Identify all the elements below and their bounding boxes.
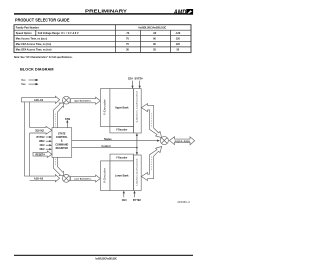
svg-text:BYTE#: BYTE# xyxy=(133,199,142,202)
bus: Lower Bank Address fat arrow xyxy=(70,175,100,182)
svg-text:Latches and Control: Latches and Control xyxy=(136,158,139,186)
bus: DQ15-DQ0 fat arrow into command register xyxy=(30,126,52,134)
svg-text:PRELIMINARY: PRELIMINARY xyxy=(85,8,127,13)
svg-text:Am29DL162C/Am29DL163C: Am29DL162C/Am29DL163C xyxy=(138,26,166,29)
bus: bent fat path state control to mux M2 xyxy=(54,157,64,175)
input CE# to lower bank xyxy=(122,191,127,202)
bus: A18-A0 upper horizontal fat arrow into mux M1 xyxy=(22,96,60,103)
bus: bent fat path mux M1 to state control (bank select) xyxy=(54,103,64,128)
block: lower bank latches and control strip xyxy=(134,155,142,191)
block: upper bank X-decoder xyxy=(101,89,110,127)
svg-text:Am29DL162C/Am29DL163C: Am29DL162C/Am29DL163C xyxy=(95,257,117,260)
input BYTE# to lower bank xyxy=(133,191,142,202)
svg-text:VSS: VSS xyxy=(21,83,26,86)
wire: Control from state control to both banks xyxy=(72,133,138,155)
svg-text:Y-Decoder: Y-Decoder xyxy=(116,158,127,160)
input BYTE# xyxy=(36,136,52,139)
table row 4 xyxy=(16,43,181,46)
power pin VSS xyxy=(21,83,38,86)
svg-text:CONTROL: CONTROL xyxy=(56,136,68,139)
power pin VCC xyxy=(21,79,38,82)
svg-text:120: 120 xyxy=(176,43,181,46)
block: upper bank cell matrix xyxy=(110,89,134,127)
wire: Status from state control to mux M3 xyxy=(72,138,160,142)
svg-text:REGISTER: REGISTER xyxy=(56,147,68,150)
svg-text:Latches and Control: Latches and Control xyxy=(136,90,139,122)
footer rule xyxy=(14,255,193,256)
svg-text:X-Decoder: X-Decoder xyxy=(104,168,107,183)
svg-text:OE#: OE# xyxy=(39,148,45,151)
input BYTE# to upper bank xyxy=(135,78,144,89)
input RESET# fat arrow xyxy=(33,151,52,157)
svg-text:DQ15–DQ0: DQ15–DQ0 xyxy=(35,131,44,133)
input WE# xyxy=(39,140,52,143)
mux M3 (DQ mux) xyxy=(160,136,168,144)
input OE# xyxy=(39,148,52,151)
svg-text:WE#: WE# xyxy=(39,140,45,143)
input CE# to upper bank xyxy=(128,78,134,89)
svg-text:Max Access Time, ns (tACC): Max Access Time, ns (tACC) xyxy=(16,37,48,40)
svg-text:Lower Bank: Lower Bank xyxy=(115,174,129,177)
bus: DQ15-DQ0 bidirectional fat arrow xyxy=(170,137,195,145)
svg-text:120: 120 xyxy=(176,37,181,40)
bus: lower bank data fat path to mux M3 xyxy=(141,147,161,181)
svg-text:BYTE#: BYTE# xyxy=(135,78,144,81)
table row 2 xyxy=(16,32,181,35)
svg-text:Status: Status xyxy=(104,138,112,141)
header rule xyxy=(14,13,193,14)
svg-text:X-Decoder: X-Decoder xyxy=(104,99,107,115)
block: state control / command register U1 xyxy=(52,128,72,158)
svg-text:AMD: AMD xyxy=(173,9,187,16)
bus: address vertical fat bus (left) xyxy=(24,102,29,180)
svg-text:BLOCK DIAGRAM: BLOCK DIAGRAM xyxy=(20,67,54,72)
bus: A18-A0 lower horizontal fat arrow into mux M2 xyxy=(24,175,59,182)
table row 3 xyxy=(16,37,181,40)
svg-text:STATE: STATE xyxy=(58,132,66,135)
block: upper bank latches and control strip xyxy=(134,89,142,133)
svg-text:BYTE#: BYTE# xyxy=(36,136,45,139)
svg-text:CE#: CE# xyxy=(128,78,133,81)
svg-text:Speed Option: Speed Option xyxy=(16,32,32,35)
svg-text:-120: -120 xyxy=(175,32,181,35)
svg-text:CE#: CE# xyxy=(40,144,45,147)
svg-text:Lower Bank Address: Lower Bank Address xyxy=(74,178,92,181)
svg-text:RESET#: RESET# xyxy=(36,153,46,156)
table row 5 xyxy=(16,49,180,52)
svg-text:PRODUCT SELECTOR GUIDE: PRODUCT SELECTOR GUIDE xyxy=(15,18,70,23)
svg-text:Y-Decoder: Y-Decoder xyxy=(116,130,127,132)
mux M2 (lower bank address mux) xyxy=(62,175,70,183)
svg-text:Upper Bank Address: Upper Bank Address xyxy=(74,100,92,103)
svg-text:&: & xyxy=(61,140,63,143)
block: lower bank Y-decoder xyxy=(110,154,134,161)
block: lower bank cell matrix xyxy=(110,161,134,191)
signal STB xyxy=(65,117,70,128)
AMD logo xyxy=(173,9,193,16)
svg-text:Upper Bank: Upper Bank xyxy=(115,106,129,109)
input CE# xyxy=(40,144,52,147)
svg-text:VCC: VCC xyxy=(21,79,26,82)
svg-text:A18–A0: A18–A0 xyxy=(34,99,44,102)
block: upper bank Y-decoder xyxy=(110,127,134,133)
svg-text:21533C-2: 21533C-2 xyxy=(177,202,190,204)
table: product selector guide xyxy=(14,25,191,53)
svg-text:Max OE# Access Time, ns (tOE): Max OE# Access Time, ns (tOE) xyxy=(16,49,52,52)
svg-text:CE#: CE# xyxy=(122,199,127,202)
svg-text:Control: Control xyxy=(102,145,111,148)
bus: Upper Bank Address fat arrow xyxy=(70,97,100,104)
svg-text:Full Voltage Range: VCC = 2.7–: Full Voltage Range: VCC = 2.7–3.6 V xyxy=(38,32,79,35)
block: lower bank X-decoder xyxy=(101,161,111,191)
svg-text:STB: STB xyxy=(65,117,70,121)
svg-text:A18–A0: A18–A0 xyxy=(34,177,44,180)
bus: upper bank data fat path to mux M3 xyxy=(141,104,161,138)
svg-text:Family Part Number: Family Part Number xyxy=(16,26,39,29)
svg-text:DQ15–DQ0: DQ15–DQ0 xyxy=(175,141,191,143)
table row 1 xyxy=(16,26,167,29)
mux M1 (upper bank address mux) xyxy=(62,96,70,104)
svg-text:COMMAND: COMMAND xyxy=(55,143,68,146)
svg-text:Max CE# Access Time, ns (tCE): Max CE# Access Time, ns (tCE) xyxy=(16,43,52,46)
svg-text:Note: See “AC Characteristics”: Note: See “AC Characteristics” for full … xyxy=(14,56,73,59)
